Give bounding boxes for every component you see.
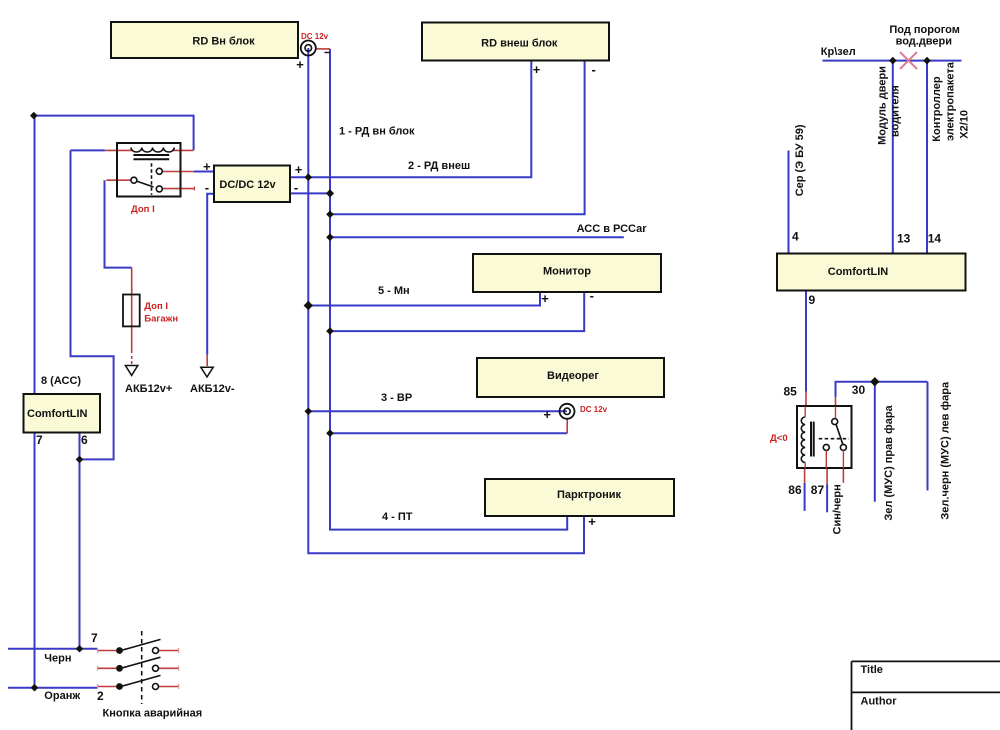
svg-text:Author: Author — [861, 696, 898, 708]
svg-text:Модуль двери: Модуль двери — [877, 66, 889, 145]
svg-text:8 (АСС): 8 (АСС) — [41, 375, 81, 387]
svg-text:4: 4 — [792, 230, 799, 244]
svg-text:DC/DC 12v: DC/DC 12v — [219, 179, 276, 191]
svg-text:вод.двери: вод.двери — [896, 36, 952, 48]
svg-text:9: 9 — [809, 293, 816, 307]
svg-text:+: + — [543, 407, 551, 422]
svg-text:Кр\зел: Кр\зел — [821, 46, 856, 58]
svg-text:Кнопка аварийная: Кнопка аварийная — [103, 708, 203, 720]
svg-text:X2/10: X2/10 — [959, 110, 971, 139]
svg-text:DC 12v: DC 12v — [301, 32, 329, 41]
svg-text:85: 85 — [784, 385, 798, 399]
svg-text:Монитор: Монитор — [543, 266, 591, 278]
svg-text:DC 12v: DC 12v — [580, 405, 608, 414]
svg-text:Title: Title — [861, 664, 883, 676]
svg-text:Парктроник: Парктроник — [557, 489, 621, 501]
svg-text:водителя: водителя — [890, 85, 902, 137]
svg-text:1 - РД вн блок: 1 - РД вн блок — [339, 126, 415, 138]
svg-text:7: 7 — [36, 433, 43, 447]
svg-text:2: 2 — [97, 689, 104, 703]
svg-text:RD Вн блок: RD Вн блок — [192, 36, 255, 48]
svg-text:13: 13 — [897, 232, 911, 246]
svg-text:-: - — [590, 288, 594, 303]
svg-text:87: 87 — [811, 483, 825, 497]
svg-text:Син/черн: Син/черн — [832, 484, 844, 534]
svg-text:Под порогом: Под порогом — [889, 24, 959, 36]
svg-text:электропакета: электропакета — [945, 61, 957, 141]
svg-text:-: - — [294, 180, 298, 195]
svg-text:-: - — [205, 180, 209, 195]
svg-text:ComfortLIN: ComfortLIN — [27, 408, 88, 420]
svg-text:30: 30 — [852, 383, 866, 397]
svg-text:2 - РД внеш: 2 - РД внеш — [408, 160, 470, 172]
svg-text:-: - — [592, 62, 596, 77]
svg-text:АСС в РССаr: АСС в РССаr — [577, 223, 648, 235]
svg-text:Доп I: Доп I — [131, 204, 155, 215]
svg-text:Оранж: Оранж — [44, 690, 80, 702]
svg-text:+: + — [588, 514, 596, 529]
svg-text:+: + — [295, 162, 303, 177]
svg-text:7: 7 — [91, 631, 98, 645]
svg-text:АКБ12v+: АКБ12v+ — [125, 383, 172, 395]
svg-text:5 - Мн: 5 - Мн — [378, 285, 410, 297]
svg-text:АКБ12v-: АКБ12v- — [190, 383, 235, 395]
svg-text:ComfortLIN: ComfortLIN — [828, 266, 889, 278]
svg-text:Д<0: Д<0 — [770, 433, 788, 444]
svg-text:4 - ПТ: 4 - ПТ — [382, 511, 413, 523]
svg-text:+: + — [541, 291, 549, 306]
svg-text:Видеорег: Видеорег — [547, 370, 599, 382]
svg-text:+: + — [296, 57, 304, 72]
svg-text:3 - ВР: 3 - ВР — [381, 392, 412, 404]
svg-text:6: 6 — [81, 433, 88, 447]
svg-text:14: 14 — [928, 232, 942, 246]
svg-text:Зел (МУС) прав фара: Зел (МУС) прав фара — [883, 404, 895, 520]
svg-text:+: + — [533, 62, 541, 77]
svg-text:Зел.черн (МУС) лев фара: Зел.черн (МУС) лев фара — [940, 381, 952, 520]
svg-text:Сер (Э БУ 59): Сер (Э БУ 59) — [794, 124, 806, 196]
svg-text:Багажн: Багажн — [144, 314, 178, 325]
svg-text:86: 86 — [788, 483, 802, 497]
svg-text:+: + — [203, 159, 211, 174]
svg-text:Контроллер: Контроллер — [931, 76, 943, 142]
svg-text:RD внеш блок: RD внеш блок — [481, 38, 558, 50]
svg-text:Доп I: Доп I — [144, 301, 168, 312]
svg-text:Черн: Черн — [44, 653, 71, 665]
